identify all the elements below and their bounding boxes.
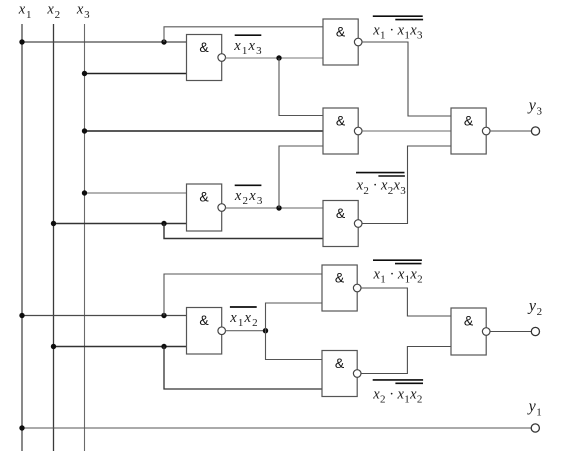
junction G6 out x265.5 bbox=[263, 328, 268, 333]
label G7 inner overline bbox=[395, 263, 422, 265]
svg-text:&: & bbox=[335, 270, 345, 286]
wire branch down to G3 top input bbox=[279, 58, 323, 116]
wire x2 rail bbox=[53, 24, 55, 451]
wire x1 rail bbox=[21, 24, 23, 451]
gate G9 NAND output y3 bbox=[451, 108, 490, 154]
wire G1 output to G2 bottom input bbox=[225, 57, 323, 59]
wire branch up to G7 top input bbox=[164, 274, 322, 316]
svg-text:&: & bbox=[336, 205, 346, 221]
wire x1 to G6 top input bbox=[22, 315, 187, 317]
wire G6 output bbox=[225, 330, 265, 332]
junction branch to G2 at x164 bbox=[161, 39, 166, 44]
wire G5 output up to G9 bottom input bbox=[362, 146, 451, 224]
wire G4 output to G5 top input bbox=[225, 207, 323, 209]
label x1x3 overline bbox=[235, 34, 262, 36]
wire G10 output bbox=[490, 331, 531, 333]
svg-text:&: & bbox=[336, 24, 346, 40]
junction G4 out x279 bbox=[276, 205, 281, 210]
wire G3 output to G9 middle input bbox=[362, 130, 451, 132]
junction branch x164 y346.5 bbox=[161, 344, 166, 349]
wire G8 output up to G10 bottom input bbox=[361, 347, 451, 374]
junction x3 y193 bbox=[82, 190, 87, 195]
label G7 long overline bbox=[373, 259, 422, 261]
junction x1 y315.5 bbox=[19, 313, 24, 318]
junction branch x164 y315.5 bbox=[161, 313, 166, 318]
junction x2 y223.5 bbox=[51, 221, 56, 226]
junction G1 out x279 bbox=[276, 55, 281, 60]
wire x3 to G4 top input bbox=[85, 192, 187, 194]
wire x1 to G1 top input bbox=[22, 41, 187, 43]
wire x3 to G3 middle input bbox=[85, 130, 324, 132]
label G8 long overline bbox=[373, 379, 423, 381]
svg-text:&: & bbox=[199, 189, 209, 205]
wire G2 output down to G9 top input bbox=[362, 42, 451, 116]
wire branch down to G8 bottom input bbox=[164, 347, 322, 390]
gate G1 NAND x1x3 bbox=[187, 35, 226, 81]
label G2 long overline bbox=[373, 15, 423, 17]
wire branch up to G2 top input bbox=[164, 27, 323, 42]
gate G7 NAND x1.x1x2 bbox=[322, 265, 361, 311]
gate G6 NAND x1x2 bbox=[187, 308, 226, 355]
junction x1 y42 bbox=[19, 39, 24, 44]
svg-text:&: & bbox=[335, 355, 345, 371]
svg-text:&: & bbox=[464, 113, 474, 129]
label x2x3 overline bbox=[235, 184, 262, 186]
svg-text:&: & bbox=[199, 312, 209, 328]
terminal y1 bbox=[531, 424, 539, 432]
wire branch down to G5 bottom input bbox=[164, 224, 323, 239]
wire branch up to G3 bottom input bbox=[279, 146, 323, 208]
gate G10 NAND output y2 bbox=[451, 308, 490, 355]
wire x3 to G1 bottom input bbox=[85, 73, 187, 75]
label G8 inner overline bbox=[395, 382, 423, 384]
gate G3 NAND middle bbox=[323, 108, 362, 154]
label x1x2 overline bbox=[230, 306, 257, 308]
wire branch down to G8 top input bbox=[266, 331, 323, 360]
gate G2 NAND x1.x1x3 bbox=[323, 19, 362, 65]
wire x2 to G6 bottom input bbox=[54, 346, 187, 348]
junction x3 y73.5 bbox=[82, 71, 87, 76]
junction branch x164 y223.5 bbox=[161, 221, 166, 226]
svg-text:&: & bbox=[464, 313, 474, 329]
terminal y3 bbox=[531, 127, 539, 135]
wire branch up to G7 bottom input bbox=[266, 303, 323, 331]
wire y1 from x1 rail bbox=[22, 427, 531, 429]
svg-text:&: & bbox=[336, 113, 346, 129]
wire x3 rail bbox=[84, 24, 86, 451]
gate G8 NAND x2.x1x2 bbox=[322, 351, 361, 397]
label G5 long overline bbox=[356, 172, 405, 174]
junction x3 y131 bbox=[82, 128, 87, 133]
label G5 inner overline bbox=[378, 175, 405, 177]
wire x2 to G4 bottom input bbox=[54, 223, 187, 225]
label G2 inner overline bbox=[395, 19, 423, 21]
junction x2 y346.5 bbox=[51, 344, 56, 349]
gate G5 NAND x2.x2x3 bbox=[323, 201, 362, 247]
terminal y2 bbox=[531, 327, 539, 335]
wire G7 output down to G10 top input bbox=[361, 288, 451, 316]
junction x1 y428 bbox=[19, 425, 24, 430]
svg-text:&: & bbox=[199, 39, 209, 55]
gate G4 NAND x2x3 bbox=[187, 184, 226, 231]
wire G9 output bbox=[490, 130, 531, 132]
